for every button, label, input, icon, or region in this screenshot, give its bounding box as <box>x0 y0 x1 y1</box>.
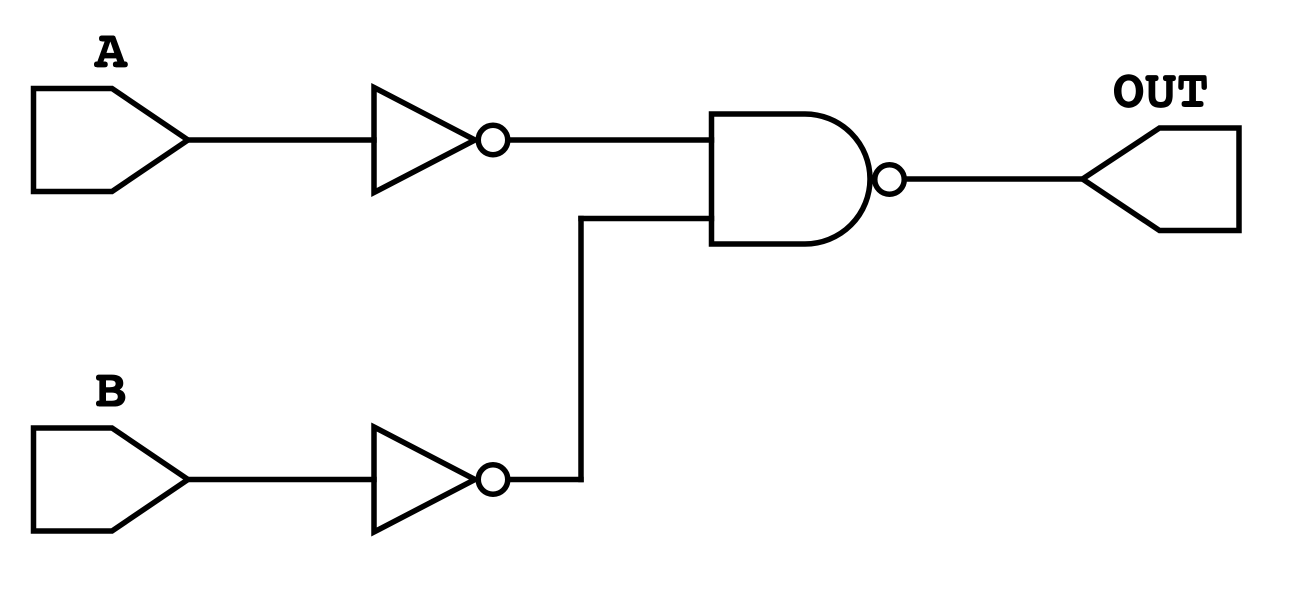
wire B to inverter U2 <box>188 477 374 483</box>
label B <box>96 375 125 407</box>
wire U1 output to NAND U3 upper input <box>508 137 712 143</box>
inverter U2 bubble <box>478 465 508 495</box>
wire A to inverter U1 <box>188 137 374 143</box>
NAND gate U3 bubble <box>875 165 905 195</box>
label A <box>94 36 128 68</box>
wire horizontal segment to NAND U3 lower input <box>581 216 712 222</box>
inverter U1 triangle <box>374 88 475 193</box>
wire vertical segment up <box>578 219 584 480</box>
wire NAND U3 output to OUT port <box>905 176 1083 182</box>
label OUT <box>1114 74 1207 108</box>
wire U2 output horizontal segment <box>508 477 581 483</box>
input port B <box>34 428 189 531</box>
inverter U1 bubble <box>478 125 508 155</box>
NAND gate U3 body <box>712 114 871 244</box>
inverter U2 triangle <box>374 427 475 532</box>
input port A <box>34 89 189 192</box>
output port OUT <box>1083 128 1240 231</box>
